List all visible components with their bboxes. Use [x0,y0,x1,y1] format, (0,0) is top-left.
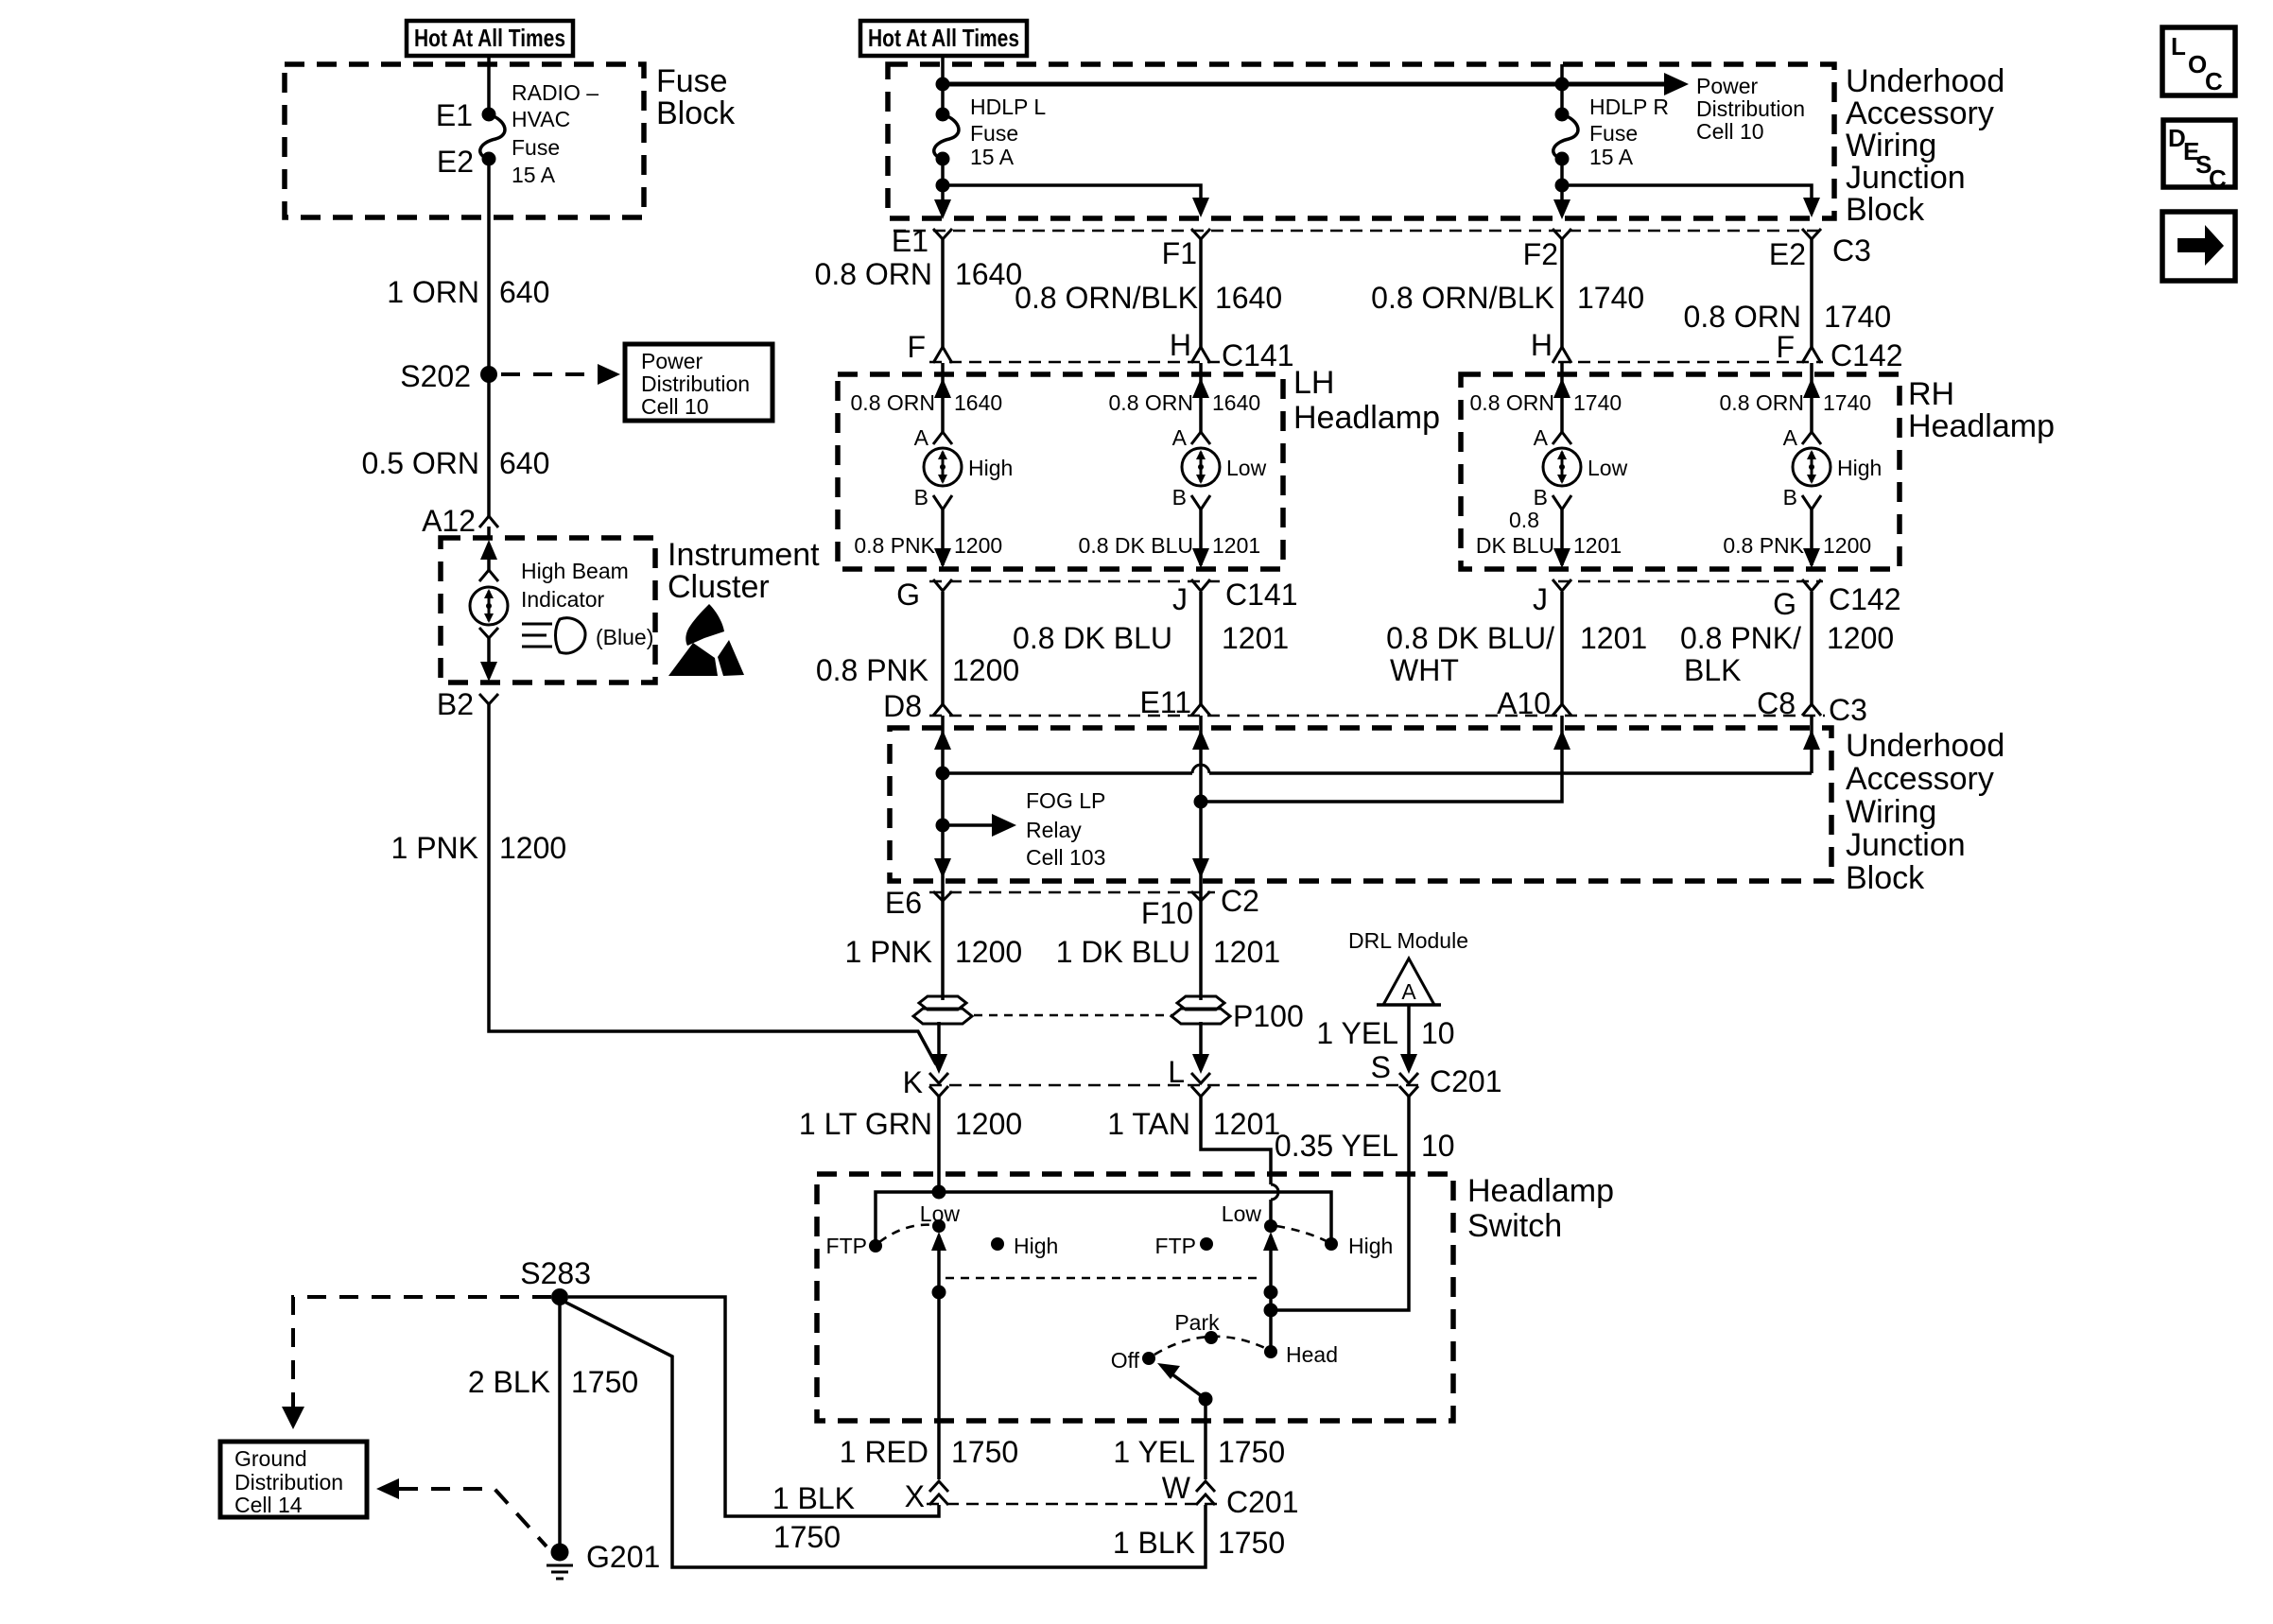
arrowhead up A10 [1553,730,1570,750]
dashed wire S283 to ground distribution arrow [293,1297,551,1407]
arrowhead down at LH box bottom (low) [1192,548,1209,568]
terminal K (double chevron) [929,1073,948,1097]
connector row C201 (top) [929,1084,1420,1086]
LH headlamp dashed box [838,374,1283,569]
connector row C3 (top) [894,230,1827,232]
svg-text:0.8 ORN: 0.8 ORN [815,257,932,291]
terminal J LH [1191,579,1210,591]
arrowhead (filled triangle down) to Ground Distribution [282,1407,304,1429]
icon headlamp beams [522,624,552,647]
svg-text:Accessory: Accessory [1846,761,1994,797]
svg-text:1740: 1740 [1577,281,1644,315]
node switch feed [932,1185,946,1200]
svg-text:1750: 1750 [1218,1526,1285,1560]
arrowhead up inside LH box (high) [934,378,951,398]
svg-text:Cluster: Cluster [668,569,770,605]
svg-text:Hot At All Times: Hot At All Times [414,24,565,52]
bulb filament LH high [942,452,945,482]
bulb filament [488,591,491,621]
svg-text:1 PNK: 1 PNK [391,831,478,865]
bulb RH low beam [1543,448,1581,486]
svg-text:H: H [1170,328,1191,362]
node left wiper (mech link) [932,1286,946,1300]
dashed arrow ground distribution to G201 [399,1489,547,1546]
node bus right [1555,78,1570,92]
svg-text:1740: 1740 [1573,390,1622,415]
wire S202 down to A12 [487,374,491,516]
arrowhead up inside RH box (high) [1803,378,1820,398]
svg-text:0.8 PNK: 0.8 PNK [854,533,935,558]
dashed arc Off-Park-Head (rotary range) [1154,1337,1267,1355]
svg-text:0.8: 0.8 [1509,508,1539,532]
svg-text:15 A: 15 A [970,145,1015,169]
wire B2 down and right to K column [489,704,936,1064]
svg-text:C: C [2209,164,2227,193]
wire L (1 TAN) into switch to RH Low [1201,1097,1271,1222]
wire rotary pivot down to W [1204,1399,1207,1479]
box Power Distribution Cell 10 [625,344,772,421]
fuse HDLP R 15A [1553,114,1578,159]
svg-text:B: B [1534,485,1548,510]
svg-text:F: F [907,330,926,364]
wire K down into switch [937,1097,941,1192]
wire bulb to cluster bottom [487,638,491,675]
svg-text:1 BLK: 1 BLK [1113,1526,1195,1560]
svg-text:Block: Block [1846,192,1925,228]
svg-text:Fuse: Fuse [656,63,728,99]
wire G RH down to C8 [1810,592,1813,704]
svg-text:S202: S202 [400,359,471,393]
svg-text:Distribution: Distribution [1696,96,1805,121]
node fuse HDLP L top [936,108,950,122]
wiper arm left (arrow up to Low) [937,1245,941,1429]
svg-text:E2: E2 [1769,237,1806,271]
ground G201 hatches [547,1565,573,1579]
svg-text:0.8 ORN/BLK: 0.8 ORN/BLK [1371,281,1554,315]
terminal B LH low [1191,495,1210,510]
node E1 (fuse top) [482,108,496,122]
svg-text:J: J [1533,582,1548,616]
connector row C141 (bottom) [929,580,1220,582]
svg-text:A: A [1172,425,1188,450]
svg-text:15 A: 15 A [1589,145,1634,169]
junction block 1 dashed box [888,64,1834,218]
svg-text:0.35 YEL: 0.35 YEL [1275,1129,1398,1163]
svg-text:F10: F10 [1141,896,1193,930]
svg-text:Block: Block [656,95,736,131]
svg-text:A: A [1783,425,1798,450]
svg-text:Low: Low [920,1201,961,1226]
svg-text:1201: 1201 [1222,621,1289,655]
svg-text:2 BLK: 2 BLK [468,1365,550,1399]
svg-text:Low: Low [1222,1201,1262,1226]
svg-text:1 BLK: 1 BLK [772,1481,855,1515]
wire stub HDLP R from box top [1560,64,1564,114]
wire bulb B down to G (RH) [1810,510,1813,565]
svg-text:Headlamp: Headlamp [1293,400,1440,436]
svg-text:1201: 1201 [1212,533,1260,558]
svg-text:D8: D8 [883,689,922,723]
terminal X (double chevron up) [929,1481,948,1505]
svg-text:L: L [2171,32,2186,60]
svg-text:0.8 DK BLU/: 0.8 DK BLU/ [1386,621,1554,655]
dashed arc FTP-Low (left wiper range) [879,1225,934,1242]
terminal A RH high [1802,432,1821,444]
headlamp switch dashed box [817,1174,1453,1421]
contact Low (right) [1264,1219,1277,1233]
node line2 on F10 wire [1194,795,1208,809]
svg-text:10: 10 [1421,1129,1455,1163]
svg-text:1740: 1740 [1823,390,1871,415]
wire H down to bulb A (RH low) [1560,363,1564,432]
svg-text:1200: 1200 [1823,533,1871,558]
wire power bus [943,82,1672,87]
bulb LH low beam [1182,448,1220,486]
wire J RH down to A10 [1560,592,1564,704]
wire feed branch left to FTP [876,1192,939,1242]
node S202 [480,366,497,383]
svg-text:1 PNK: 1 PNK [845,935,932,969]
svg-text:10: 10 [1421,1016,1455,1050]
svg-text:S283: S283 [520,1256,591,1290]
svg-text:B2: B2 [437,687,474,721]
arrowhead E1 wire [934,199,951,219]
svg-text:Cell 14: Cell 14 [234,1493,303,1517]
wire S (0.35 YEL) into switch to right wiper [1271,1097,1409,1310]
svg-text:1200: 1200 [955,1107,1022,1141]
bulb LH high beam [924,448,962,486]
grommet P100 right [1171,996,1230,1024]
svg-text:Switch: Switch [1467,1208,1562,1244]
svg-text:RH: RH [1908,376,1954,412]
svg-text:1 TAN: 1 TAN [1107,1107,1190,1141]
svg-text:640: 640 [499,446,549,480]
arrowhead up inside RH box (low) [1553,378,1570,398]
terminal A12 [479,516,498,527]
arrowhead down at RH box bottom (low) [1553,548,1570,568]
dashed link between grommets [974,1014,1172,1017]
svg-text:E1: E1 [892,224,928,258]
svg-text:Accessory: Accessory [1846,95,1994,131]
svg-text:E6: E6 [885,886,922,920]
high beam indicator bulb [470,587,508,625]
wire C8 leg up [1810,716,1813,773]
node right wiper (mech link) [1264,1286,1278,1300]
RH headlamp dashed box [1461,374,1900,569]
svg-text:Wiring: Wiring [1846,794,1936,830]
svg-text:High Beam: High Beam [521,559,629,583]
contact Park [1205,1331,1218,1344]
svg-text:A: A [914,425,929,450]
svg-text:Headlamp: Headlamp [1908,408,2055,444]
terminal F RH [1802,347,1821,363]
svg-text:1201: 1201 [1213,935,1280,969]
contact High (left, unconnected) [991,1237,1004,1251]
svg-text:B: B [1172,485,1187,510]
node rotary pivot [1199,1392,1213,1407]
arrowhead E2 wire [1803,198,1820,217]
svg-text:F2: F2 [1523,237,1558,271]
svg-text:DRL Module: DRL Module [1348,928,1468,953]
svg-text:Cell 103: Cell 103 [1026,845,1105,870]
svg-text:15 A: 15 A [512,163,556,187]
terminal F LH [933,347,952,363]
icon ESD warning lower triangles [668,640,744,676]
svg-text:0.8 ORN: 0.8 ORN [851,390,935,415]
arrowhead right wiper [1263,1232,1278,1251]
terminal G RH [1802,579,1821,591]
svg-text:0.8 PNK/: 0.8 PNK/ [1680,621,1801,655]
svg-text:HDLP R: HDLP R [1589,95,1669,119]
wire F2 to H [1560,239,1564,347]
svg-text:Indicator: Indicator [521,587,605,612]
svg-text:C: C [2205,67,2223,95]
wire line1 D8 to C8 [943,771,1812,775]
svg-text:FTP: FTP [826,1234,867,1258]
svg-text:C201: C201 [1226,1485,1299,1519]
svg-text:0.8 PNK: 0.8 PNK [1723,533,1804,558]
wire branch to F1 [943,185,1201,210]
node fuse HDLP R top [1555,108,1570,122]
icon ESD warning upper wedge [685,604,724,646]
wire left wiper down to X [937,1429,941,1479]
arrowhead up D8 [934,730,951,750]
bulb RH high beam [1793,448,1831,486]
svg-text:0.8 DK BLU: 0.8 DK BLU [1013,621,1172,655]
label Hot At All Times (left) [407,21,573,56]
terminal J RH [1553,579,1571,591]
legend arrow symbol [2178,225,2224,266]
svg-text:A10: A10 [1497,686,1551,720]
svg-text:HDLP L: HDLP L [970,95,1046,119]
svg-text:Junction: Junction [1846,160,1966,196]
svg-text:Fuse: Fuse [512,135,560,160]
svg-text:HVAC: HVAC [512,107,570,131]
terminal C8 [1802,704,1821,716]
svg-text:Underhood: Underhood [1846,63,2004,99]
svg-text:W: W [1162,1471,1191,1505]
arrowhead up inside LH box (low) [1192,378,1209,398]
svg-text:1 YEL: 1 YEL [1316,1016,1398,1050]
svg-text:B: B [1783,485,1797,510]
arrowhead down at LH box bottom (high) [934,548,951,568]
terminal A LH high [933,432,952,444]
arrowhead down E6 [934,858,951,878]
wire branch to E2 [1562,185,1812,210]
wire HDLP R fuse down to F2 [1560,159,1564,214]
arrowhead down at S [1400,1054,1417,1074]
terminal F1 [1191,229,1210,239]
svg-text:H: H [1531,328,1553,362]
svg-text:P100: P100 [1233,999,1304,1033]
contact FTP (left) [869,1239,882,1253]
svg-text:C3: C3 [1829,693,1867,727]
node FOG LP relay tap [936,819,950,833]
wire fuse E2 down to S202 [487,159,491,374]
wire F1 to H [1199,239,1203,347]
connector row C141 (top) [929,361,1220,363]
svg-text:Block: Block [1846,860,1925,896]
DRL module triangle [1383,959,1434,1005]
wire arrow up inside cluster [487,548,491,572]
ground G201 symbol [551,1544,569,1562]
terminal F10 [1191,891,1210,901]
svg-text:Park: Park [1174,1310,1220,1335]
svg-text:0.8 PNK: 0.8 PNK [816,653,928,687]
svg-text:1200: 1200 [954,533,1002,558]
svg-text:1 YEL: 1 YEL [1113,1435,1195,1469]
svg-text:1640: 1640 [1215,281,1282,315]
node fuse HDLP R bottom [1555,152,1570,166]
legend LOC box [2162,27,2235,95]
terminal E11 [1191,704,1210,716]
terminal A10 [1553,704,1571,716]
svg-text:F1: F1 [1162,236,1197,270]
terminal E1 [933,229,952,239]
svg-text:1200: 1200 [955,935,1022,969]
wire from Hot At All Times 2 down [941,56,945,114]
wire F down to bulb A (LH high) [941,363,945,432]
svg-text:1640: 1640 [955,257,1022,291]
svg-text:Instrument: Instrument [668,537,820,573]
svg-text:Hot At All Times: Hot At All Times [868,24,1019,52]
legend DESC box [2163,120,2235,187]
svg-text:G201: G201 [586,1540,660,1574]
arrowhead up E11 [1192,730,1209,750]
svg-text:Distribution: Distribution [234,1470,343,1494]
terminal A RH low [1553,432,1571,444]
wire grommet to K [937,1022,941,1068]
svg-text:(Blue): (Blue) [596,625,653,649]
svg-text:Fuse: Fuse [970,121,1018,146]
arrowhead up at cluster top [480,540,497,560]
svg-text:E2: E2 [437,145,474,179]
svg-text:High: High [1348,1234,1393,1258]
svg-text:Headlamp: Headlamp [1467,1173,1614,1209]
svg-text:C142: C142 [1831,338,1903,372]
icon headlamp lens [556,618,586,653]
arrowhead up C8 [1803,730,1820,750]
wire J down to E11 [1199,592,1203,704]
svg-text:E11: E11 [1139,685,1191,719]
node line1 on D8 wire [936,767,950,781]
svg-text:C142: C142 [1829,582,1901,616]
terminal L (double chevron) [1191,1073,1210,1097]
node fuse HDLP L bottom [936,152,950,166]
svg-text:High: High [1837,456,1882,480]
terminal G LH [933,579,952,591]
svg-text:G: G [1773,587,1796,621]
svg-text:A12: A12 [422,504,476,538]
svg-text:0.5 ORN: 0.5 ORN [362,446,479,480]
wire X down-left to S283 branch [568,1297,939,1516]
wire A12 into instrument cluster [487,527,491,538]
svg-text:0.8 ORN/BLK: 0.8 ORN/BLK [1015,281,1198,315]
svg-text:G: G [896,578,920,612]
svg-text:1740: 1740 [1824,300,1891,334]
wire G down to D8 [941,592,945,704]
arrowhead rotary wiper [1157,1363,1180,1379]
node bus left [936,78,950,92]
wire bulb B down to G (LH) [941,510,945,565]
svg-text:1201: 1201 [1580,621,1647,655]
wire F10 down to grommet [1199,901,1203,1000]
svg-text:Low: Low [1588,456,1628,480]
arrowhead F1 wire [1192,198,1209,217]
connector row C142 (bottom) [1558,580,1823,582]
svg-text:Head: Head [1286,1342,1338,1367]
svg-text:1640: 1640 [1212,390,1260,415]
svg-text:High: High [968,456,1013,480]
wire FOG LP relay arrow [943,823,998,827]
svg-text:Cell 10: Cell 10 [1696,119,1764,144]
svg-text:FOG LP: FOG LP [1026,788,1105,813]
rotary wiper arm to Off [1172,1374,1206,1399]
fuse HDLP L 15A [934,114,959,159]
hop TAN wire over feed bus [1271,1184,1278,1200]
wire grommet to L [1199,1022,1203,1068]
wire F down to bulb A (RH high) [1810,363,1813,432]
svg-text:Junction: Junction [1846,827,1966,863]
box Ground Distribution Cell 14 [220,1442,367,1517]
wire E2 to F [1810,239,1813,347]
arrowhead (left) from ground distribution dashed arrow [376,1478,399,1499]
node E2 (fuse bottom) [482,152,496,166]
terminal D8 [933,704,952,716]
svg-text:0.8 ORN: 0.8 ORN [1684,300,1801,334]
arrowhead down F10 [1192,858,1209,878]
svg-text:C141: C141 [1222,338,1294,372]
contact Off [1142,1352,1155,1365]
svg-text:DK BLU: DK BLU [1476,533,1554,558]
svg-text:Low: Low [1226,456,1267,480]
svg-text:High: High [1014,1234,1058,1258]
svg-text:0.8 DK BLU: 0.8 DK BLU [1079,533,1193,558]
svg-text:1201: 1201 [1213,1107,1280,1141]
svg-text:640: 640 [499,275,549,309]
svg-text:1750: 1750 [773,1520,841,1554]
arrowhead to Power Distribution box [598,364,620,385]
svg-text:1750: 1750 [571,1365,638,1399]
wire DRL down to S [1407,1005,1411,1068]
svg-text:C141: C141 [1225,578,1298,612]
wire S283 down to G201 [558,1297,562,1545]
svg-text:S: S [1371,1050,1391,1084]
svg-text:Relay: Relay [1026,818,1082,842]
svg-text:1 DK BLU: 1 DK BLU [1056,935,1190,969]
terminal S (double chevron) [1399,1073,1418,1097]
svg-text:C3: C3 [1832,233,1871,268]
terminal B2 [479,694,498,704]
DRL module base bar [1377,1003,1441,1007]
svg-text:E1: E1 [436,98,473,132]
terminal E6 [933,891,952,901]
legend arrow box [2162,212,2235,281]
hop line1 over E11 wire [1192,765,1209,773]
svg-text:0.8 ORN: 0.8 ORN [1720,390,1804,415]
dashed arc Low-High (right wiper range) [1276,1226,1327,1241]
wire from Hot At All Times into fuse block [487,56,491,114]
dashed mechanical link between wipers [946,1277,1263,1280]
svg-text:Off: Off [1111,1348,1140,1373]
svg-text:1 LT GRN: 1 LT GRN [799,1107,932,1141]
node branch to F1 [936,179,950,193]
wire E11-F10 through block (with hop at line1) [1199,716,1203,901]
grommet P100 left [913,996,972,1024]
contact Head [1264,1345,1277,1358]
wire D8-E6 through block [941,716,945,901]
label Hot At All Times (right) [860,21,1027,56]
